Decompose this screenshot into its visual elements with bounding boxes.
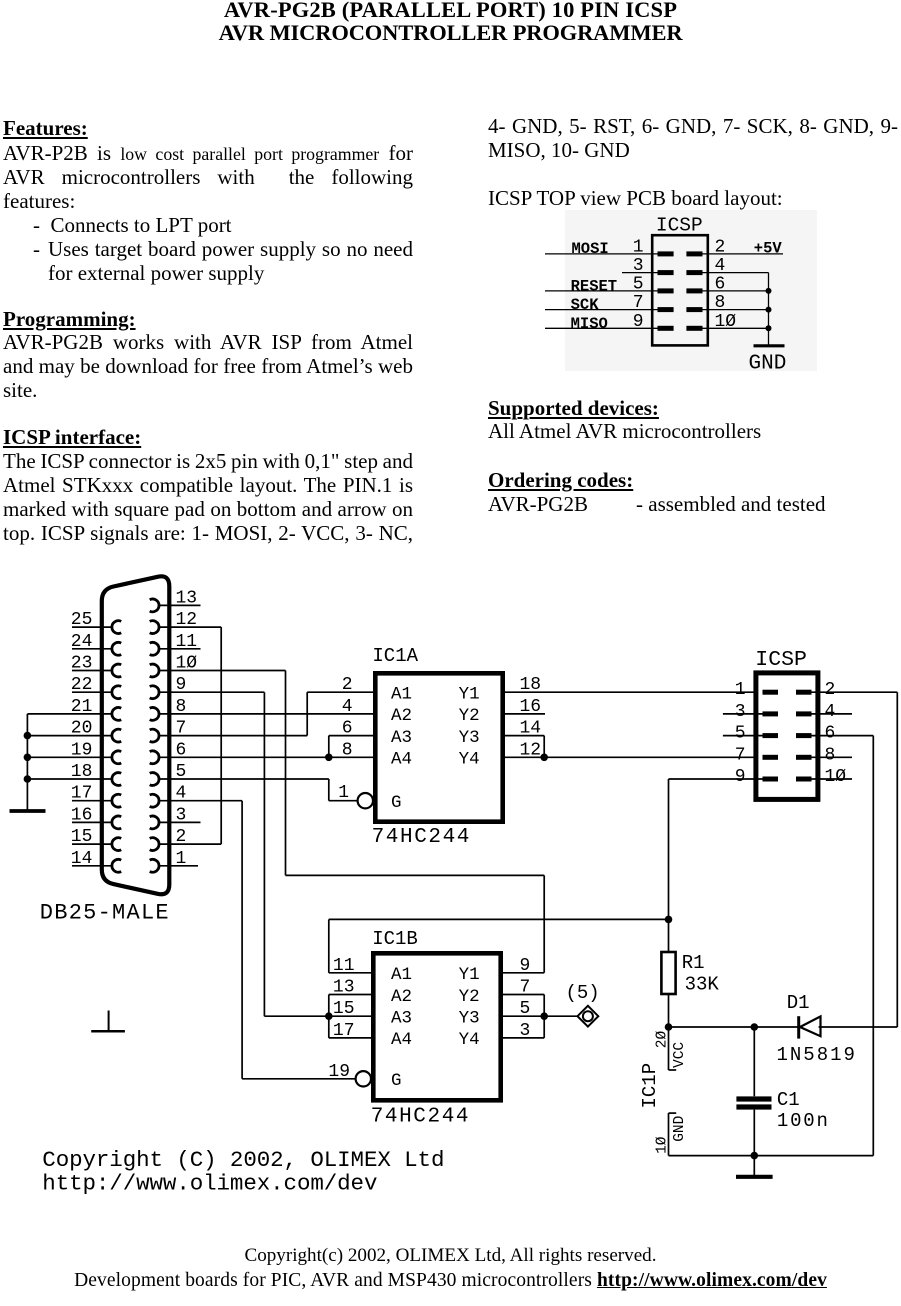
wire DB25 pin 4 [158, 800, 242, 802]
svg-text:(5): (5) [566, 982, 600, 1004]
svg-text:1: 1 [735, 680, 746, 700]
IC1P GND pin 10 [669, 1112, 677, 1114]
wire IC1B Y1 (pin 9) to readback [503, 972, 544, 974]
junction pin 10 [766, 325, 772, 331]
svg-text:A3: A3 [391, 1009, 412, 1029]
DB25 pin 20 contact [112, 729, 121, 742]
ICSP pad 5 (left) [763, 733, 779, 738]
junction Y4/SCK [540, 754, 548, 762]
wire IC1B Y4 (pin 3) [503, 1037, 544, 1039]
wire IC1A Y4 (pin 12) to ICSP pin 7 - SCK [505, 756, 754, 758]
DB25 pin 18 contact [112, 773, 121, 786]
svg-text:G: G [391, 1071, 402, 1091]
page title line 1 [0, 0, 901, 22]
ICSP pad 10 (right) [796, 777, 812, 782]
svg-text:MISO: MISO [571, 315, 608, 333]
DB25 pin 7 contact [150, 729, 159, 742]
DB25 pin 15 contact [112, 838, 121, 851]
svg-text:RESET: RESET [571, 277, 618, 295]
wire pin 8 to ground rail [703, 309, 769, 311]
svg-text:Y3: Y3 [459, 1009, 480, 1029]
ground symbol (DB25) [10, 809, 46, 813]
wire RESET to pin 5 [545, 290, 658, 292]
wire DB25 pin 4 down to IC1B G [241, 801, 243, 1079]
DB25 pin 6 contact [150, 751, 159, 764]
svg-text:23: 23 [71, 654, 93, 674]
capacitor C1 bottom plate [736, 1104, 771, 1109]
DB25 pin 1 contact [150, 859, 159, 872]
wire IC1B output bracket [543, 995, 545, 1038]
wire DB25 pin 7 up to IC1A A1 [306, 692, 308, 735]
svg-text:VCC: VCC [672, 1042, 688, 1068]
svg-text:74HC244: 74HC244 [372, 826, 471, 849]
ground rail (PCB layout) [768, 273, 770, 345]
wire DB25 pin 6 [158, 756, 373, 758]
op-amp buffer IC1B box [373, 953, 500, 1100]
wire Y3 down to Y4 net [543, 736, 545, 758]
svg-text:8: 8 [825, 745, 836, 765]
ICSP PCB pad 5 (left) [658, 288, 674, 293]
wire pin 6 to ground rail [703, 290, 769, 292]
IC1P VCC pin 20 [668, 1027, 670, 1070]
ICSP PCB pad 7 (left) [658, 307, 674, 312]
svg-text:IC1A: IC1A [372, 645, 418, 667]
svg-text:DB25-MALE: DB25-MALE [40, 900, 170, 925]
svg-text:R1: R1 [682, 952, 705, 974]
wire into IC1A A1 [307, 691, 373, 693]
svg-text:8: 8 [342, 740, 353, 760]
wire MOSI to pin 1 [545, 253, 658, 255]
ground rail from DB25 pin 21 [26, 714, 28, 810]
ground symbol (floating, below DB25) [108, 1011, 110, 1032]
svg-text:18: 18 [71, 762, 93, 782]
junction GND at C1 [751, 1152, 759, 1160]
wire readback down to IC1B Y1 [543, 875, 545, 972]
wire IC1A Y3 (pin 14) [505, 735, 544, 737]
DB25 pin 2 contact [150, 838, 159, 851]
wire R1 to VCC line [668, 994, 670, 1027]
DB25 pin 16 contact [112, 816, 121, 829]
svg-text:8: 8 [176, 697, 187, 717]
wire into IC1B pin 11 [329, 972, 371, 974]
wire VCC line to D1 cathode [669, 1026, 799, 1028]
diode D1 cathode bar [797, 1016, 800, 1038]
svg-text:9: 9 [735, 767, 746, 787]
wire DB25 pin 12 [158, 626, 221, 628]
DB25 pin 10 contact [150, 664, 159, 677]
svg-text:2: 2 [825, 680, 836, 700]
ICSP PCB layout connector outline [652, 235, 708, 345]
connector ICSP box [756, 673, 818, 800]
wire DB25 pin 19 [27, 756, 112, 758]
wire ICSP pin 4 stub [812, 713, 853, 715]
wire MISO horizontal to IC1B A1 [329, 918, 669, 920]
wire branch A3/A4 [328, 736, 330, 758]
ICSP pad 7 (left) [763, 755, 779, 760]
svg-text:Y2: Y2 [459, 706, 480, 726]
svg-text:15: 15 [71, 827, 93, 847]
wire DB25 pin 7 [158, 735, 307, 737]
svg-text:4: 4 [176, 784, 187, 804]
wire DB25 pin 8 [158, 713, 373, 715]
svg-text:Y4: Y4 [459, 1030, 480, 1050]
svg-text:Y1: Y1 [459, 965, 480, 985]
DB25 pin 13 contact [150, 599, 159, 612]
svg-text:7: 7 [633, 293, 644, 313]
svg-text:4: 4 [715, 256, 726, 276]
resistor R1 body [661, 952, 675, 994]
ICSP pad 9 (left) [763, 777, 779, 782]
svg-text:6: 6 [825, 724, 836, 744]
ICSP PCB pad 9 (left) [658, 326, 674, 331]
ICSP pad 6 (right) [796, 733, 812, 738]
svg-text:6: 6 [715, 274, 726, 294]
wire into IC1A A3 [329, 735, 373, 737]
svg-text:SCK: SCK [571, 296, 600, 314]
wire MISO down to IC1B pin 11 [328, 919, 330, 972]
junction DB25 pin 20 [24, 732, 32, 740]
svg-text:Y1: Y1 [459, 685, 480, 705]
wire DB25 pin 5 jog to IC1A G [328, 779, 330, 801]
svg-text:8: 8 [715, 293, 726, 313]
ICSP PCB pad 1 (left) [658, 251, 674, 256]
DB25 pin 24 contact [112, 642, 121, 655]
svg-text:A3: A3 [391, 728, 412, 748]
wire DB25 pin 11 [158, 648, 200, 650]
footer line 2 [0, 1271, 901, 1291]
wire GND line [669, 1155, 874, 1157]
junction VCC at IC1P pin 20 [665, 1023, 673, 1031]
wire DB25 pin 15 [72, 843, 112, 845]
wire DB25 pin 14 [72, 865, 112, 867]
wire SCK to pin 7 [545, 309, 658, 311]
node (5) inner circle [583, 1011, 593, 1021]
wire DB25 pin 5 [158, 778, 328, 780]
svg-text:7: 7 [735, 745, 746, 765]
svg-text:1: 1 [338, 783, 349, 803]
svg-text:GND: GND [672, 1116, 688, 1142]
svg-text:2: 2 [715, 237, 726, 257]
junction MISO rail [665, 916, 673, 924]
svg-text:11: 11 [176, 632, 198, 652]
svg-text:Copyright (C) 2002, OLIMEX Ltd: Copyright (C) 2002, OLIMEX Ltd [42, 1147, 444, 1173]
PCB layout image background [565, 210, 817, 371]
wire DB25 pin 13 [158, 604, 200, 606]
wire IC1B pin 17 stub [329, 1037, 371, 1039]
svg-text:1Ø: 1Ø [655, 1136, 671, 1154]
DB25 pin 4 contact [150, 794, 159, 807]
svg-text:9: 9 [633, 312, 644, 332]
capacitor C1 top plate [736, 1096, 771, 1101]
ICSP pad 1 (left) [763, 690, 779, 695]
wire DB25 pin 10 down (readback) [285, 671, 287, 876]
svg-text:+5V: +5V [754, 240, 783, 258]
svg-text:5: 5 [176, 762, 187, 782]
svg-text:74HC244: 74HC244 [371, 1105, 470, 1128]
DB25 pin 19 contact [112, 751, 121, 764]
wire DB25 pin 17 [72, 800, 112, 802]
wire IC1B G to DB25 pin 4 net [242, 1078, 356, 1080]
svg-text:A2: A2 [391, 706, 412, 726]
left column text [3, 118, 88, 139]
wire DB25 pin 21 [27, 713, 112, 715]
svg-text:http://www.olimex.com/dev: http://www.olimex.com/dev [42, 1171, 377, 1197]
ICSP pad 2 (right) [796, 690, 812, 695]
svg-text:7: 7 [176, 719, 187, 739]
wire IC1A Y1 (pin 18) to ICSP pin 1 - MOSI [505, 691, 754, 693]
svg-text:14: 14 [71, 849, 93, 869]
svg-text:25: 25 [71, 610, 93, 630]
svg-text:GND: GND [749, 353, 787, 376]
ICSP pad 3 (left) [763, 711, 779, 716]
svg-text:33K: 33K [685, 974, 720, 996]
DB25 pin 5 contact [150, 773, 159, 786]
svg-text:A2: A2 [391, 987, 412, 1007]
wire DB25 pin 9 [158, 691, 264, 693]
svg-text:1Ø: 1Ø [176, 654, 198, 674]
svg-text:2: 2 [342, 675, 353, 695]
DB25 pin 17 contact [112, 794, 121, 807]
ICSP pad 8 (right) [796, 755, 812, 760]
wire ICSP pin 6 to GND rail [812, 735, 874, 737]
diode D1 triangle [800, 1016, 821, 1036]
svg-text:ICSP: ICSP [755, 648, 807, 672]
svg-text:1Ø: 1Ø [715, 312, 737, 332]
ground symbol (PCB layout) [754, 344, 785, 347]
svg-text:3: 3 [633, 256, 644, 276]
svg-text:21: 21 [71, 697, 93, 717]
svg-text:6: 6 [342, 719, 353, 739]
svg-text:A1: A1 [391, 685, 412, 705]
svg-text:6: 6 [176, 740, 187, 760]
junction DB25 pin 19 [24, 754, 32, 762]
IC1A G inverter bubble [358, 793, 373, 808]
wire DB25 pin 12 to pin 2 loopback [220, 627, 222, 844]
wire IC1B Y3 (pin 5) to node (5) [503, 1015, 578, 1017]
svg-text:5: 5 [633, 274, 644, 294]
svg-text:100n: 100n [777, 1110, 830, 1132]
DB25 pin 12 contact [150, 621, 159, 634]
wire pin 3 stub [622, 272, 658, 274]
wire into IC1A G [329, 800, 358, 802]
svg-text:13: 13 [176, 588, 198, 608]
svg-text:1: 1 [633, 237, 644, 257]
wire pin 4 to ground rail [703, 272, 769, 274]
svg-text:3: 3 [735, 702, 746, 722]
ground symbol (schematic) [736, 1175, 773, 1179]
wire C1 to GND line [753, 1110, 755, 1156]
wire readback horizontal [286, 874, 545, 876]
svg-text:1: 1 [176, 849, 187, 869]
wire ICSP pin 10 stub [812, 778, 853, 780]
wire ICSP pin 2 to +5V rail [812, 691, 898, 693]
wire DB25 pin 25 [72, 626, 112, 628]
wire ICSP pin 3 stub [723, 713, 763, 715]
junction DB25 pin 18 [24, 775, 32, 783]
IC1B G inverter bubble [356, 1071, 371, 1086]
wire D1 anode to +5V rail [819, 1026, 898, 1028]
svg-text:22: 22 [71, 675, 93, 695]
svg-text:2Ø: 2Ø [655, 1030, 671, 1048]
wire DB25 pin 16 [72, 821, 112, 823]
wire IC1B Y2 (pin 7) [503, 994, 544, 996]
wire DB25 pin 9 down to IC1B A3 net [263, 692, 265, 1016]
DB25 pin 23 contact [112, 664, 121, 677]
svg-text:C1: C1 [777, 1089, 800, 1111]
wire +5V rail down to D1 [896, 692, 898, 1027]
svg-text:2: 2 [176, 827, 187, 847]
junction IC1B Y3 output [540, 1012, 548, 1020]
svg-text:16: 16 [71, 805, 93, 825]
wire ICSP pin 9 - MISO [669, 778, 763, 780]
svg-text:ICSP: ICSP [656, 215, 703, 237]
svg-text:A4: A4 [391, 1030, 412, 1050]
ICSP PCB pad 3 (left) [658, 270, 674, 275]
junction C1 top [751, 1023, 759, 1031]
DB25 pin 3 contact [150, 816, 159, 829]
junction pin 6 [766, 288, 772, 294]
DB25 pin 25 contact [112, 621, 121, 634]
wire DB25 pin 24 [72, 648, 112, 650]
svg-text:12: 12 [176, 610, 198, 630]
DB25 pin 14 contact [112, 859, 121, 872]
wire IC1A Y2 (pin 16) stub [505, 713, 545, 715]
svg-text:Y4: Y4 [459, 750, 480, 770]
node (5) diamond [578, 1006, 599, 1027]
wire VCC to C1 [753, 1027, 755, 1096]
svg-text:Y3: Y3 [459, 728, 480, 748]
svg-text:IC1B: IC1B [372, 928, 418, 950]
right column text [488, 116, 898, 137]
wire DB25 pin 1 [158, 865, 198, 867]
ICSP pad 4 (right) [796, 711, 812, 716]
svg-text:IC1P: IC1P [639, 1063, 661, 1109]
junction pin 8 [766, 307, 772, 313]
wire ICSP pin 5 stub [723, 735, 763, 737]
svg-text:A1: A1 [391, 965, 412, 985]
svg-text:1N5819: 1N5819 [777, 1044, 857, 1066]
footer line 1 [0, 1246, 901, 1265]
DB25 pin 22 contact [112, 686, 121, 699]
DB25 pin 11 contact [150, 642, 159, 655]
svg-text:24: 24 [71, 632, 93, 652]
wire DB25 pin 2 [158, 843, 221, 845]
svg-text:9: 9 [176, 675, 187, 695]
wire DB25 pin 3 [158, 821, 200, 823]
wire DB25 pin 22 [72, 691, 112, 693]
junction A4 branch [325, 754, 333, 762]
wire MISO down from ICSP pin 9 [668, 779, 670, 952]
wire DB25 pin 9 net into IC1B A3 [264, 1015, 371, 1017]
DB25 pin 9 contact [150, 686, 159, 699]
svg-text:Y2: Y2 [459, 987, 480, 1007]
svg-text:19: 19 [71, 740, 93, 760]
svg-text:MOSI: MOSI [572, 240, 609, 258]
svg-text:1Ø: 1Ø [825, 767, 847, 787]
page title line 2 [0, 22, 901, 45]
svg-text:4: 4 [342, 697, 353, 717]
ICSP PCB pad 2 (right) [686, 251, 702, 256]
op-amp buffer IC1A box [375, 673, 502, 821]
svg-text:11: 11 [333, 956, 355, 976]
wire DB25 pin 10 [158, 670, 285, 672]
wire ICSP pin 8 stub [812, 756, 853, 758]
wire pin 2 to +5V [703, 253, 784, 255]
wire ground stub [753, 1156, 755, 1176]
wire IC1B input bracket [328, 995, 330, 1038]
ICSP PCB pad 4 (right) [686, 270, 702, 275]
svg-text:4: 4 [825, 702, 836, 722]
DB25 pin 8 contact [150, 708, 159, 721]
ICSP PCB pad 8 (right) [686, 307, 702, 312]
wire IC1B pin 13 stub [329, 994, 371, 996]
svg-text:G: G [391, 793, 402, 813]
svg-text:5: 5 [735, 724, 746, 744]
wire DB25 pin 20 [27, 735, 112, 737]
svg-text:20: 20 [71, 719, 93, 739]
svg-text:D1: D1 [787, 992, 810, 1014]
ICSP PCB pad 10 (right) [686, 326, 702, 331]
wire pin 10 to ground rail [703, 327, 769, 329]
wire DB25 pin 18 [27, 778, 112, 780]
connector DB25-MALE outline [102, 576, 170, 894]
wire DB25 pin 23 [72, 670, 112, 672]
junction IC1B A3 input [325, 1012, 333, 1020]
wire MISO to pin 9 [545, 327, 658, 329]
svg-text:A4: A4 [391, 750, 412, 770]
DB25 pin 21 contact [112, 708, 121, 721]
svg-text:3: 3 [176, 805, 187, 825]
svg-text:17: 17 [71, 784, 93, 804]
wire GND rail down [872, 736, 874, 1156]
ICSP PCB pad 6 (right) [686, 288, 702, 293]
